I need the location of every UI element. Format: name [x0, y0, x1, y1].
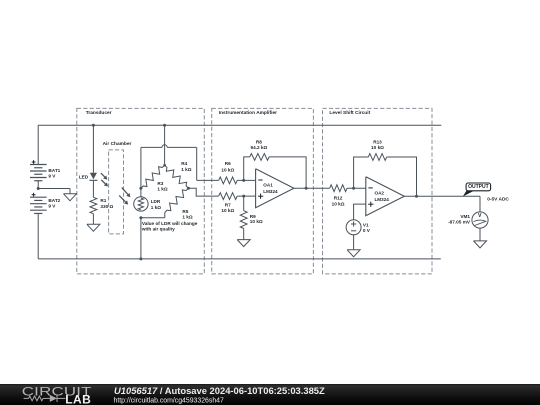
svg-text:Transducer: Transducer	[86, 110, 112, 116]
svg-text:R3: R3	[157, 181, 163, 186]
svg-text:Level Shift Circuit: Level Shift Circuit	[329, 110, 370, 116]
svg-text:OUTPUT: OUTPUT	[468, 184, 489, 190]
svg-text:R8: R8	[256, 139, 262, 144]
svg-text:94.2 kΩ: 94.2 kΩ	[251, 145, 268, 150]
svg-text:LDR: LDR	[151, 199, 161, 204]
svg-text:330 Ω: 330 Ω	[100, 204, 113, 209]
svg-text:1 kΩ: 1 kΩ	[151, 205, 162, 210]
svg-text:LM324: LM324	[263, 189, 278, 194]
svg-text:LED: LED	[79, 174, 89, 179]
svg-text:1 kΩ: 1 kΩ	[157, 187, 168, 192]
svg-text:10 kΩ: 10 kΩ	[332, 201, 345, 206]
svg-text:1 kΩ: 1 kΩ	[181, 167, 192, 172]
svg-text:R1: R1	[100, 198, 106, 203]
svg-text:9 V: 9 V	[48, 203, 56, 208]
svg-text:R6: R6	[225, 161, 231, 166]
svg-text:LM324: LM324	[375, 197, 390, 202]
svg-text:R13: R13	[373, 140, 382, 145]
svg-text:U1056517 / Autosave 2024-06-10: U1056517 / Autosave 2024-06-10T06:25:03.…	[114, 385, 325, 396]
svg-text:10 kΩ: 10 kΩ	[371, 145, 384, 150]
svg-text:http://circuitlab.com/cg459332: http://circuitlab.com/cg4593326sh47	[114, 397, 224, 404]
svg-text:10 kΩ: 10 kΩ	[221, 208, 234, 213]
svg-text:Air Chamber: Air Chamber	[103, 141, 132, 147]
svg-text:Instrumentation Amplifier: Instrumentation Amplifier	[219, 110, 277, 116]
svg-text:-87.05 mV: -87.05 mV	[448, 220, 471, 225]
svg-text:10 kΩ: 10 kΩ	[250, 219, 263, 224]
svg-text:BAT1: BAT1	[48, 168, 60, 173]
svg-text:R12: R12	[334, 196, 343, 201]
svg-text:V: V	[478, 213, 482, 219]
svg-text:10 kΩ: 10 kΩ	[221, 167, 234, 172]
svg-text:OA1: OA1	[263, 183, 273, 188]
svg-text:R4: R4	[181, 161, 187, 166]
svg-text:LAB: LAB	[65, 393, 91, 405]
svg-text:R7: R7	[225, 202, 231, 207]
svg-text:BAT2: BAT2	[48, 198, 60, 203]
svg-text:0-5V ADC: 0-5V ADC	[487, 196, 509, 202]
svg-text:R5: R5	[182, 209, 188, 214]
svg-text:V1: V1	[363, 223, 369, 228]
svg-text:0 V: 0 V	[363, 228, 371, 233]
svg-text:OA2: OA2	[375, 190, 385, 195]
svg-text:9 V: 9 V	[48, 174, 56, 179]
svg-text:Value of LDR will change: Value of LDR will change	[142, 221, 198, 226]
svg-text:1 kΩ: 1 kΩ	[182, 215, 193, 220]
svg-text:with air quality: with air quality	[141, 227, 175, 232]
svg-text:VM1: VM1	[460, 214, 470, 219]
